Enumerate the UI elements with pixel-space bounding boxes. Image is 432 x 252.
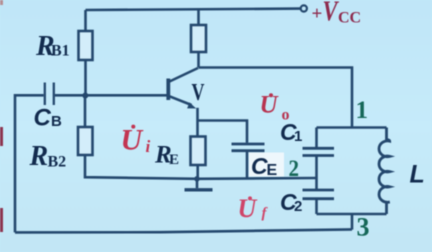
label Uf dot [248, 196, 252, 200]
label patch behind CE [249, 153, 284, 177]
wire node 3 drop [351, 214, 354, 230]
capacitor CE plates [232, 144, 265, 151]
wire C1 to C2 [315, 156, 318, 190]
wire emitter vertical [196, 108, 199, 137]
capacitor C1 plates [303, 148, 335, 155]
svg-text:B1: B1 [51, 43, 70, 60]
wire RE bottom [196, 165, 199, 179]
svg-text:2: 2 [294, 198, 302, 215]
wire CB left and left rail [15, 95, 44, 232]
svg-text:B2: B2 [48, 154, 67, 171]
wire Rc bottom [197, 52, 200, 68]
svg-text:V: V [192, 80, 205, 106]
transistor V collector lead [170, 68, 199, 82]
svg-text:2: 2 [289, 156, 300, 181]
resistor RB1 [79, 31, 93, 60]
terminal +Vcc circle [301, 5, 307, 11]
node base junction dot [82, 93, 88, 99]
wire base [55, 94, 167, 97]
resistor RE [191, 137, 206, 166]
svg-text:E: E [169, 152, 179, 168]
svg-text:C: C [251, 153, 268, 179]
left edge artifact red strip upper [0, 127, 3, 146]
wire CE bottom [246, 152, 249, 178]
wire top rail [86, 9, 301, 10]
capacitor CB plates [45, 83, 54, 106]
wire RB1 bottom to base node [84, 60, 87, 95]
wire C2 bottom [315, 199, 318, 214]
svg-text:1: 1 [294, 128, 302, 145]
label Uo dot [269, 93, 273, 97]
ground stem [196, 179, 199, 188]
tank top bar [317, 126, 387, 129]
node emitter junction dot [194, 176, 200, 182]
svg-text:i: i [146, 137, 151, 156]
capacitor C2 plates [303, 190, 335, 199]
svg-text:3: 3 [357, 213, 370, 242]
inductor L coil [379, 128, 390, 215]
wire Rc top [197, 9, 200, 25]
svg-text:B: B [51, 113, 62, 130]
wire tank left top [315, 128, 318, 149]
svg-text:1: 1 [356, 97, 369, 124]
left edge artifact red strip lower [0, 208, 3, 232]
svg-text:C: C [34, 105, 52, 132]
label Ui dot [131, 125, 135, 129]
transistor V base bar [166, 79, 170, 101]
svg-text:U: U [121, 124, 144, 157]
corner artifact top-left [0, 0, 3, 5]
wire RB1 top [84, 10, 87, 31]
wire emitter node to node 2 [197, 177, 317, 180]
wire RB2 top [84, 95, 87, 127]
svg-text:+: + [312, 4, 323, 25]
svg-text:CC: CC [338, 10, 361, 27]
svg-text:U: U [260, 92, 280, 119]
ground bar [185, 188, 213, 191]
transistor V emitter lead [170, 96, 192, 105]
resistor Rc [191, 25, 206, 52]
svg-text:R: R [29, 141, 49, 172]
svg-text:L: L [410, 161, 425, 189]
transistor V emitter arrowhead [187, 102, 196, 108]
wire RB2 bottom to emitter node [85, 155, 197, 179]
tank bottom bar [317, 213, 387, 216]
svg-text:U: U [238, 194, 258, 223]
svg-text:V: V [323, 0, 340, 28]
wire bottom rail [15, 229, 352, 232]
svg-text:E: E [267, 162, 278, 179]
wire emitter to CE [198, 121, 248, 143]
resistor RB2 [78, 127, 93, 155]
wire collector rail to node 1 [199, 68, 353, 128]
